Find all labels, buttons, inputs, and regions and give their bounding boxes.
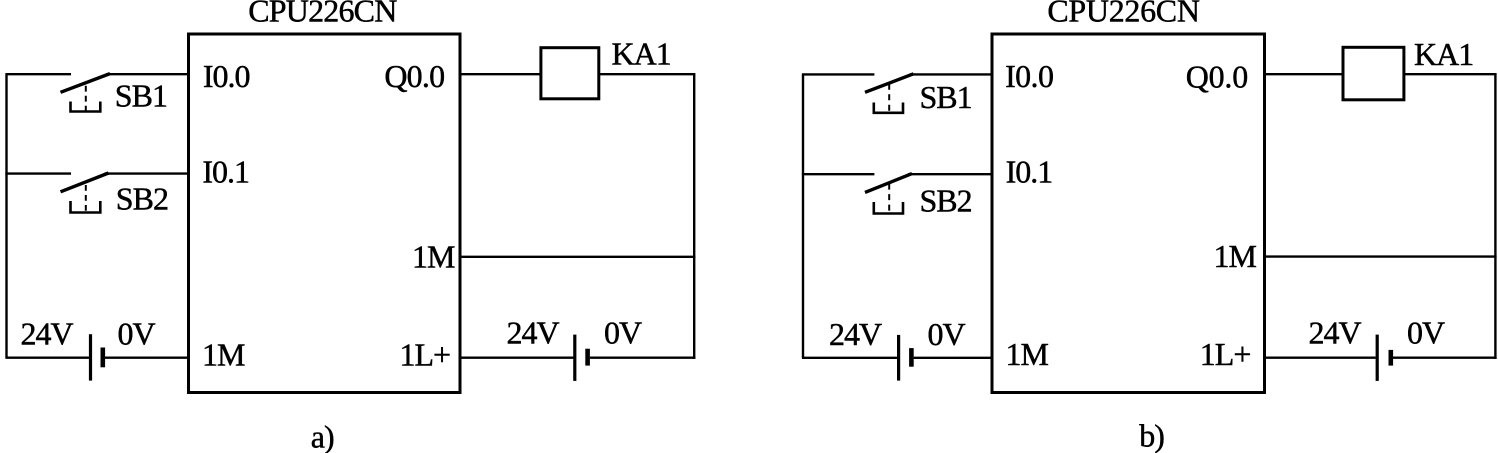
svg-text:I0.1: I0.1	[202, 153, 249, 189]
wire: battery - plate to 1M pin	[105, 357, 190, 359]
wire: Q0.0 pin to relay coil KA1 (b)	[1265, 73, 1344, 75]
svg-text:SB1: SB1	[115, 77, 167, 113]
svg-text:0V: 0V	[1407, 314, 1445, 350]
wire: output battery - plate to right rail (b)	[1393, 357, 1497, 359]
switch SB1 blade	[61, 74, 111, 93]
wire: 1L+ pin to output battery + plate	[460, 357, 574, 359]
wire: SB1 right contact to I0.0 pin (b)	[910, 73, 994, 75]
wire: SB2 right contact to I0.1 pin	[105, 172, 191, 174]
switch SB2 push-button cap (b)	[874, 202, 903, 214]
PLC block U1 (CPU226CN)	[189, 34, 461, 393]
svg-text:KA1: KA1	[612, 35, 671, 71]
battery BT2 long plate (+)	[573, 335, 576, 381]
svg-text:1M: 1M	[412, 238, 455, 274]
wire: SB2 right contact to I0.1 pin (b)	[908, 173, 993, 175]
switch SB1 push-button cap (b)	[874, 103, 903, 113]
svg-text:24V: 24V	[829, 316, 882, 352]
wire: Q0.0 pin to relay coil KA1	[460, 73, 541, 75]
svg-text:SB1: SB1	[920, 79, 972, 115]
svg-text:CPU226CN: CPU226CN	[1047, 0, 1199, 28]
svg-text:24V: 24V	[21, 315, 74, 351]
svg-text:0V: 0V	[118, 315, 156, 351]
wire: rail to input battery + plate	[5, 357, 89, 359]
relay coil KA1 (b)	[1343, 47, 1404, 100]
battery BT2 short plate (-)	[585, 349, 590, 366]
battery BT3 long plate (+)	[897, 335, 900, 381]
switch SB1 actuator dashed link (b)	[888, 84, 890, 113]
battery BT4 short plate (-)	[1389, 350, 1394, 366]
wire: KA1 to right rail	[599, 73, 696, 75]
wire: rail to input battery + plate (b)	[802, 357, 897, 359]
wire: output battery - plate to right rail	[590, 357, 696, 359]
switch SB2 push-button cap	[71, 201, 101, 213]
switch SB2 actuator dashed link (b)	[888, 184, 890, 213]
wire: left rail (input side)	[5, 74, 7, 358]
battery BT1 long plate (+)	[89, 334, 92, 380]
wire: I0.0 branch, rail to SB1 left contact	[5, 73, 71, 75]
battery BT3 short plate (-)	[909, 348, 914, 367]
switch SB2 blade (b)	[865, 174, 912, 193]
svg-text:24V: 24V	[507, 315, 560, 351]
svg-text:b): b)	[1139, 417, 1164, 453]
switch SB2 blade	[61, 173, 109, 192]
battery BT1 short plate (-)	[101, 348, 106, 368]
svg-text:KA1: KA1	[1414, 36, 1473, 72]
svg-text:1L+: 1L+	[400, 337, 451, 373]
svg-text:1M: 1M	[1006, 336, 1049, 372]
wire: 1M output pin to right rail	[460, 256, 695, 258]
svg-text:SB2: SB2	[116, 181, 168, 217]
battery BT4 long plate (+)	[1376, 335, 1379, 381]
wire: battery - plate to 1M pin (b)	[914, 357, 993, 359]
svg-text:SB2: SB2	[920, 182, 972, 218]
svg-text:Q0.0: Q0.0	[384, 58, 444, 94]
svg-text:1L+: 1L+	[1200, 336, 1251, 372]
wire: I0.0 branch, rail to SB1 left contact (b)	[802, 73, 875, 75]
svg-text:I0.1: I0.1	[1006, 154, 1053, 190]
wire: KA1 to right rail (b)	[1404, 73, 1497, 75]
wire: SB1 right contact to I0.0 pin	[106, 73, 190, 75]
svg-text:I0.0: I0.0	[1005, 58, 1053, 94]
svg-text:0V: 0V	[928, 316, 966, 352]
svg-text:24V: 24V	[1309, 314, 1362, 350]
svg-text:CPU226CN: CPU226CN	[248, 0, 397, 28]
wire: right rail (output side, b)	[1494, 74, 1496, 359]
wire: I0.1 branch, rail to SB2 left contact (b)	[802, 173, 875, 175]
relay coil KA1	[541, 48, 599, 99]
wire: 1L+ pin to output battery + plate (b)	[1265, 357, 1376, 359]
svg-text:1M: 1M	[1214, 238, 1257, 274]
wire: right rail (output side)	[693, 74, 695, 359]
switch SB1 blade (b)	[865, 74, 914, 93]
switch SB1 push-button cap	[71, 102, 101, 112]
switch SB1 actuator dashed link	[85, 86, 87, 112]
svg-text:1M: 1M	[202, 336, 245, 372]
wire: I0.1 branch, rail to SB2 left contact	[5, 172, 71, 174]
wire: 1M output pin to right rail (b)	[1265, 255, 1497, 257]
svg-text:I0.0: I0.0	[203, 58, 250, 94]
svg-text:a): a)	[311, 418, 334, 453]
svg-text:0V: 0V	[604, 315, 642, 351]
PLC block U2 (CPU226CN)	[992, 34, 1265, 393]
wire: left rail (input side, b)	[802, 74, 804, 357]
svg-text:Q0.0: Q0.0	[1186, 58, 1248, 94]
switch SB2 actuator dashed link	[85, 185, 87, 213]
